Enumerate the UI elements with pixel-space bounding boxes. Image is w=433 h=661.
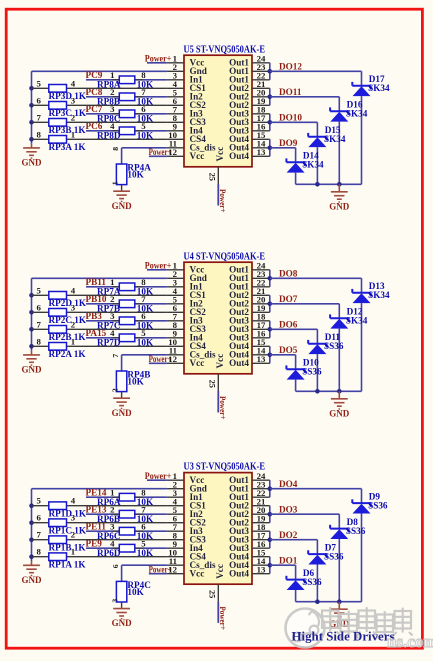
ground RP4B GND <box>112 398 133 418</box>
svg-text:2: 2 <box>111 388 120 392</box>
resistor RP8B pin stubs <box>112 96 143 98</box>
wire U3 pin 11 Cs_dis to RP4C <box>122 565 167 581</box>
svg-text:SK34: SK34 <box>368 290 390 300</box>
svg-text:4: 4 <box>71 285 76 295</box>
IC U3 right pin stubs <box>252 480 270 574</box>
resistor RP3C pin number 6 <box>37 95 42 105</box>
node DO2 junction dot <box>268 537 273 542</box>
svg-text:GND: GND <box>22 365 43 375</box>
net label Power+ pin1 U5 <box>145 54 172 64</box>
wire U4 pin 25 to Power+ <box>217 391 219 413</box>
svg-text:Power+: Power+ <box>145 261 172 271</box>
resistor RP2C pin number 6 <box>37 302 42 312</box>
resistor RP1A body <box>49 553 67 561</box>
resistor RP7B pin number 2 <box>110 294 115 304</box>
diode D9 SS36 <box>352 499 370 513</box>
svg-text:5: 5 <box>37 285 42 295</box>
svg-text:6: 6 <box>37 302 42 312</box>
wire joining U5 output group 2 <box>269 88 271 105</box>
resistor RP2A pin number 1 <box>71 336 75 346</box>
resistor RP2C pin number 3 <box>71 302 76 312</box>
svg-text:RP2D 1K: RP2D 1K <box>49 298 87 308</box>
svg-text:RP1A 1K: RP1A 1K <box>49 559 87 569</box>
diode D12 designator label <box>347 307 363 317</box>
wire net DO9 vertical to diode D14 <box>295 148 297 162</box>
resistor RP7C pin stubs <box>112 320 143 322</box>
wire U5 pin 11 Cs_dis to RP4A <box>122 148 167 164</box>
svg-text:GND: GND <box>22 158 43 168</box>
resistor RP1B body <box>49 536 67 544</box>
wire joining U4 output group 2 <box>269 295 271 312</box>
node DO9 junction dot <box>268 146 273 151</box>
junction dot left bus U5 row 2 <box>29 103 34 108</box>
net label PE9 <box>86 539 103 549</box>
wire diode D17 anode to ground bus <box>361 96 363 184</box>
svg-text:8: 8 <box>37 547 42 557</box>
resistor RP6C body <box>119 527 135 535</box>
wire ground stem U5 left bus <box>31 144 33 148</box>
wire Power+ to U4 pin 12 <box>149 362 167 364</box>
resistor RP8C designator <box>97 114 120 124</box>
resistor RP1A designator and value 1K <box>49 559 87 569</box>
net label PC6 <box>86 121 103 131</box>
resistor RP3A body <box>49 136 67 144</box>
svg-text:DO8: DO8 <box>279 269 298 279</box>
svg-text:DO7: DO7 <box>279 294 298 304</box>
wire ground stem U4 left bus <box>31 351 33 355</box>
svg-text:GND: GND <box>112 201 133 211</box>
resistor RP6A pin stubs <box>112 496 143 498</box>
svg-text:RP2C 1K: RP2C 1K <box>49 315 87 325</box>
net label Power+ pin1 U4 <box>145 261 172 271</box>
wire Power+ to U4 pin 1 <box>147 269 167 271</box>
svg-text:6: 6 <box>111 564 120 568</box>
svg-text:15: 15 <box>257 548 266 558</box>
diode D7 SS36 <box>308 550 326 564</box>
net label Power+ rotated under U3 <box>218 606 228 630</box>
svg-text:SS36: SS36 <box>302 367 322 377</box>
svg-text:23: 23 <box>257 480 266 490</box>
node DO6 junction dot <box>268 327 273 332</box>
resistor RP4A pin number 1 rotated <box>111 181 120 185</box>
resistor RP7A body <box>119 283 135 291</box>
wire Power+ to U3 pin 12 <box>149 573 167 575</box>
resistor RP4B value 10K <box>127 376 144 386</box>
net label DO9 <box>279 138 298 148</box>
ground RP4A GND <box>112 191 133 211</box>
wire joining U5 output group 1 <box>269 63 271 80</box>
svg-text:SK34: SK34 <box>346 316 368 326</box>
svg-text:1: 1 <box>111 181 120 185</box>
wire net DO1 vertical to diode D6 <box>295 565 297 579</box>
net label DO4 <box>279 479 298 489</box>
resistor RP2A pin number 8 <box>37 336 42 346</box>
svg-text:U3 ST-VNQ5050AK-E: U3 ST-VNQ5050AK-E <box>184 462 266 473</box>
resistor RP1A pin number 1 <box>71 547 75 557</box>
diode D9 designator label <box>369 492 381 502</box>
resistor RP7A pin stubs <box>112 286 143 288</box>
wire net DO3 horizontal <box>270 513 340 515</box>
resistor RP3D body <box>49 85 67 93</box>
IC U5 right pin names <box>229 58 249 162</box>
resistor RP3D designator and value 1K <box>49 91 87 101</box>
resistor RP3C body <box>49 102 67 110</box>
diode D6 designator label <box>303 568 315 578</box>
resistor RP8A pin number 8 <box>141 70 146 80</box>
IC U5 pin 25 stub <box>217 167 219 184</box>
svg-text:GND: GND <box>329 408 350 418</box>
svg-text:7: 7 <box>37 112 42 122</box>
net label DO7 <box>279 294 298 304</box>
wire net DO5 vertical to diode D10 <box>295 355 297 369</box>
wire ground stem U3 left bus <box>31 561 33 565</box>
resistor RP3C designator and value 1K <box>49 108 87 118</box>
svg-text:8: 8 <box>111 147 120 151</box>
resistor RP2C body <box>49 309 67 317</box>
net label DO3 <box>279 505 298 515</box>
svg-text:8: 8 <box>37 129 42 139</box>
wire net DO4 vertical to diode D9 <box>361 489 363 503</box>
svg-text:Vcc: Vcc <box>190 569 205 579</box>
wire net PB10 row <box>86 303 167 305</box>
resistor RP7D pin number 5 <box>141 328 146 338</box>
resistor RP8A body <box>119 76 135 84</box>
wire ground stem U3 diode bus <box>338 602 340 610</box>
wire net DO10 horizontal <box>270 121 318 123</box>
resistor RP8D designator <box>97 131 121 141</box>
resistor RP4A value 10K <box>127 169 144 179</box>
diode D17 designator label <box>369 74 385 84</box>
net label Power+ pin12 U5 <box>149 147 172 157</box>
svg-text:Power+: Power+ <box>218 189 228 213</box>
svg-text:Out4: Out4 <box>229 151 249 161</box>
net label PA15 <box>86 328 107 338</box>
svg-text:RP1D 1K: RP1D 1K <box>49 508 87 518</box>
IC U5 right pin numbers 13-24 <box>257 54 266 158</box>
resistor RP2B pin number 2 <box>71 319 76 329</box>
resistor RP2D pin number 5 <box>37 285 42 295</box>
resistor RP4C pin number 6 rotated <box>111 564 120 568</box>
wire net PC8 row <box>86 96 167 98</box>
resistor RP6C pin number 3 <box>110 522 115 532</box>
junction dot left bus U3 row 2 <box>29 520 34 525</box>
resistor RP8C pin stubs <box>112 113 143 115</box>
junction dot left bus U4 row 3 <box>29 327 34 332</box>
svg-text:8: 8 <box>37 336 42 346</box>
node DO5 junction dot <box>268 353 273 358</box>
diode D10 value label SS36 <box>302 367 322 377</box>
wire net DO8 vertical to diode D13 <box>361 278 363 292</box>
svg-text:U4 ST-VNQ5050AK-E: U4 ST-VNQ5050AK-E <box>184 251 266 262</box>
svg-text:SS36: SS36 <box>302 577 322 587</box>
wire Power+ to U5 pin 12 <box>149 155 167 157</box>
wire Power+ to U3 pin 1 <box>147 479 167 481</box>
svg-text:18: 18 <box>257 522 266 532</box>
resistor RP8B pin number 2 <box>110 87 115 97</box>
wire Power+ to U5 pin 1 <box>147 62 167 64</box>
svg-text:Vcc: Vcc <box>190 358 205 368</box>
wire RP4A to ground <box>121 185 123 192</box>
wire diode D9 anode to ground bus <box>361 514 363 602</box>
resistor RP7D designator <box>97 338 121 348</box>
wire net DO11 vertical to diode D16 <box>338 97 340 111</box>
wire joining U5 output group 4 <box>269 139 271 156</box>
junction dot left bus U3 row 1 <box>29 503 34 508</box>
net label DO6 <box>279 320 298 330</box>
IC U5 left pin stubs <box>167 63 184 157</box>
resistor RP6A body <box>119 493 135 501</box>
wire joining U4 output group 4 <box>269 346 271 363</box>
junction dot bus-U4 at D column 2 <box>315 389 320 394</box>
svg-text:7: 7 <box>37 319 42 329</box>
wire RP3C row <box>32 104 167 106</box>
node DO7 junction dot <box>268 302 273 307</box>
resistor RP7A pin number 1 <box>110 277 114 287</box>
svg-text:SK34: SK34 <box>302 160 324 170</box>
diode D12 value label SK34 <box>346 316 368 326</box>
svg-text:RP1B 1K: RP1B 1K <box>49 542 87 552</box>
resistor RP7B pin stubs <box>112 303 143 305</box>
svg-text:Vcc: Vcc <box>215 354 225 369</box>
junction dot left bus U5 row 3 <box>29 120 34 125</box>
resistor RP3D pin number 4 <box>71 78 76 88</box>
svg-text:GND: GND <box>22 575 43 585</box>
junction dot bus-U3 at D column 2 <box>315 599 320 604</box>
wire net DO2 vertical to diode D7 <box>316 540 318 554</box>
wire net DO3 vertical to diode D8 <box>338 514 340 528</box>
wire diode D8 anode to ground bus <box>338 539 340 602</box>
resistor RP1D pin number 4 <box>71 496 76 506</box>
svg-text:7: 7 <box>37 530 42 540</box>
resistor RP6B pin number 2 <box>110 505 115 515</box>
wire diode D16 anode to ground bus <box>338 122 340 185</box>
net label DO2 <box>279 530 298 540</box>
IC U3 title label <box>184 462 266 473</box>
wire RP1C row <box>32 522 167 524</box>
svg-text:Power+: Power+ <box>145 471 172 481</box>
net label PE13 <box>86 505 107 515</box>
net label DO5 <box>279 345 298 355</box>
diode D14 designator label <box>303 151 319 161</box>
resistor RP4C pin number 3 rotated <box>111 599 120 603</box>
svg-text:10K: 10K <box>127 587 144 597</box>
wire RP3B row <box>32 121 167 123</box>
node DO1 junction dot <box>268 563 273 568</box>
IC U4 title label <box>184 251 266 262</box>
svg-text:DO6: DO6 <box>279 320 298 330</box>
diode D15 designator label <box>325 125 341 135</box>
resistor RP7B designator <box>97 304 120 314</box>
wire ground bus under diodes U4 <box>296 390 362 392</box>
resistor RP6A pin number 1 <box>110 488 114 498</box>
svg-text:25: 25 <box>208 380 217 388</box>
resistor RP8C pin number 6 <box>141 104 146 114</box>
resistor RP7D value 10K <box>137 338 154 348</box>
resistor RP8C value 10K <box>137 114 154 124</box>
net label Power+ pin1 U3 <box>145 471 172 481</box>
resistor RP7C value 10K <box>137 321 154 331</box>
resistor RP6B value 10K <box>137 514 154 524</box>
svg-text:2: 2 <box>71 530 76 540</box>
resistor RP6C designator <box>97 531 120 541</box>
svg-text:DO4: DO4 <box>279 479 298 489</box>
svg-text:RP3D 1K: RP3D 1K <box>49 91 87 101</box>
resistor RP8A pin number 1 <box>110 70 114 80</box>
resistor RP3D pin number 5 <box>37 78 42 88</box>
diode D13 designator label <box>369 281 385 291</box>
wire net DO9 horizontal <box>270 147 296 149</box>
op-amp-style IC U3 ST-VNQ5050AK-E body <box>184 473 252 585</box>
net label DO10 <box>279 113 302 123</box>
diode D8 designator label <box>347 517 359 527</box>
wire net DO5 horizontal <box>270 354 296 356</box>
net label Power+ pin12 U3 <box>149 565 172 575</box>
resistor RP4A pin number 8 rotated <box>111 147 120 151</box>
wire U4 pin2 to left ground bus <box>32 278 167 351</box>
diode D6 SS36 <box>286 576 304 590</box>
wire U5 pin 25 to Power+ <box>217 184 219 206</box>
resistor RP3B pin number 7 <box>37 112 42 122</box>
wire joining U5 output group 3 <box>269 114 271 131</box>
svg-text:22: 22 <box>257 488 266 498</box>
ground RP4C GND <box>112 609 133 629</box>
wire diode D11 anode to ground bus <box>316 354 318 391</box>
net label DO1 <box>279 556 298 566</box>
resistor RP6B body <box>119 510 135 518</box>
svg-text:3: 3 <box>71 513 76 523</box>
wire net DO4 horizontal <box>270 488 362 490</box>
diode D15 SK34 <box>308 133 326 147</box>
svg-text:RP3B 1K: RP3B 1K <box>49 125 87 135</box>
svg-text:GND: GND <box>329 201 350 211</box>
wire ground stem U4 diode bus <box>338 391 340 399</box>
ground U3 diode bus GND <box>329 609 350 629</box>
svg-text:U5 ST-VNQ5050AK-E: U5 ST-VNQ5050AK-E <box>184 44 266 55</box>
IC U5 right pin stubs <box>252 63 270 157</box>
diode D10 SS36 <box>286 365 304 379</box>
resistor RP8A designator <box>97 80 121 90</box>
diode D8 value label SS36 <box>346 526 366 536</box>
svg-text:SS36: SS36 <box>346 526 366 536</box>
svg-text:16: 16 <box>257 539 266 549</box>
net label PC8 <box>86 87 103 97</box>
IC U3 right pin numbers 13-24 <box>257 471 266 575</box>
svg-text:DO9: DO9 <box>279 138 298 148</box>
svg-text:DO10: DO10 <box>279 113 302 123</box>
resistor RP7D pin stubs <box>112 337 143 339</box>
resistor RP2A body <box>49 343 67 351</box>
IC U4 pin 25 stub <box>217 374 219 391</box>
resistor RP3A designator and value 1K <box>49 142 87 152</box>
svg-text:3: 3 <box>71 95 76 105</box>
wire net DO2 horizontal <box>270 539 318 541</box>
watermark ns.com text <box>387 632 433 651</box>
wire U3 pin 25 to Power+ <box>217 601 219 623</box>
resistor RP8D body <box>119 127 135 135</box>
svg-text:19: 19 <box>257 514 266 524</box>
svg-text:24: 24 <box>257 54 266 64</box>
wire net DO1 horizontal <box>270 564 296 566</box>
svg-text:Power+: Power+ <box>149 354 172 364</box>
wire net PC6 row <box>86 130 167 132</box>
wire RP1B row <box>32 539 167 541</box>
resistor RP4B pin number 7 rotated <box>111 354 120 358</box>
IC U4 pin 25 name Vcc rotated <box>215 354 225 369</box>
svg-text:DO12: DO12 <box>279 62 302 72</box>
resistor RP6C value 10K <box>137 531 154 541</box>
wire net PE13 row <box>86 513 167 515</box>
svg-text:DO2: DO2 <box>279 530 298 540</box>
svg-text:Vcc: Vcc <box>215 147 225 162</box>
diode D6 value label SS36 <box>302 577 322 587</box>
IC U3 pin 25 name Vcc rotated <box>215 564 225 579</box>
svg-text:1: 1 <box>71 336 75 346</box>
resistor RP1D pin number 5 <box>37 496 42 506</box>
resistor RP1B pin number 7 <box>37 530 42 540</box>
node DO8 junction dot <box>268 276 273 281</box>
resistor RP4B pin number 2 rotated <box>111 388 120 392</box>
resistor RP7C body <box>119 317 135 325</box>
resistor RP1D body <box>49 502 67 510</box>
junction dot bus-U5 at D column 2 <box>315 182 320 187</box>
IC U3 left pin names <box>190 475 216 579</box>
svg-text:SS36: SS36 <box>368 501 388 511</box>
wire ground bus under diodes U3 <box>296 601 362 603</box>
wire RP2D row <box>32 294 167 296</box>
IC U5 pin 25 name Vcc rotated <box>215 147 225 162</box>
resistor RP4C body vertical <box>116 581 126 602</box>
IC U4 left pin numbers 1-12 <box>168 261 177 365</box>
svg-text:SK34: SK34 <box>324 134 346 144</box>
resistor RP2A designator and value 1K <box>49 349 87 359</box>
resistor RP4C designator <box>127 580 150 590</box>
resistor RP1A pin number 8 <box>37 547 42 557</box>
net label PB10 <box>86 294 107 304</box>
resistor RP1B pin number 2 <box>71 530 76 540</box>
IC U4 pin 25 number rotated <box>208 380 217 388</box>
IC U3 right pin names <box>229 475 249 579</box>
svg-text:2: 2 <box>71 112 76 122</box>
wire RP4C to ground <box>121 602 123 609</box>
junction dot left bus U3 row 3 <box>29 537 34 542</box>
resistor RP6D designator <box>97 548 121 558</box>
resistor RP8D pin number 4 <box>110 121 115 131</box>
wire net PC7 row <box>86 113 167 115</box>
node DO11 junction dot <box>268 95 273 100</box>
svg-text:SK34: SK34 <box>346 109 368 119</box>
svg-text:4: 4 <box>71 78 76 88</box>
ground U4 left bus GND <box>22 355 43 375</box>
resistor RP6D body <box>119 544 135 552</box>
resistor RP8B value 10K <box>137 97 154 107</box>
svg-text:25: 25 <box>208 173 217 181</box>
resistor RP6D pin number 4 <box>110 539 115 549</box>
wire net DO12 vertical to diode D17 <box>361 71 363 85</box>
resistor RP6A value 10K <box>137 497 154 507</box>
resistor RP3B pin number 2 <box>71 112 76 122</box>
wire diode D7 anode to ground bus <box>316 565 318 602</box>
resistor RP8D pin number 5 <box>141 121 146 131</box>
resistor RP1D designator and value 1K <box>49 508 87 518</box>
resistor RP7A value 10K <box>137 287 154 297</box>
resistor RP8D pin stubs <box>112 130 143 132</box>
resistor RP8C body <box>119 110 135 118</box>
wire net DO8 horizontal <box>270 277 362 279</box>
net label DO12 <box>279 62 302 72</box>
wire RP2A row <box>32 345 167 347</box>
resistor RP6B pin stubs <box>112 513 143 515</box>
resistor RP2B designator and value 1K <box>49 332 87 342</box>
